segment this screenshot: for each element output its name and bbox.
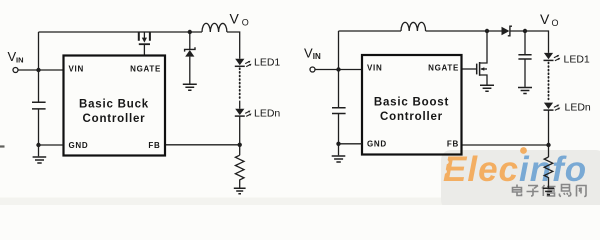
svg-text:Elecinfo: Elecinfo [443,150,587,189]
label Basic Buck Controller [79,99,149,126]
ground (below R2) [543,188,554,195]
svg-text:Controller: Controller [380,111,443,123]
svg-text:LED1: LED1 [564,53,590,65]
dotted wire LED string (left) [239,68,241,100]
node GND junction (right) [336,142,340,146]
label VIN (left) [8,49,24,65]
ground (below R1) [234,188,246,194]
node input junction (right) [336,67,340,71]
LEDn (left string) [235,109,252,117]
svg-text:VIN: VIN [69,65,84,74]
wire GND to input cap (left) [39,144,64,146]
wire top rail to inductor (right) [339,30,402,32]
wire LEDn to resistor (left) [239,101,241,156]
edge artifact mark [0,145,5,147]
svg-text:Basic Buck: Basic Buck [79,99,149,111]
svg-text:NGATE: NGATE [428,64,459,73]
capacitor C3 (input, right) [332,70,346,144]
wire MOSFET to switch node (left) [150,31,202,33]
svg-text:Basic Boost: Basic Boost [374,97,449,109]
wire input riser (right) [338,31,340,70]
wire GND to input cap (right) [339,143,363,145]
ground (below C2) [518,88,532,94]
wire input riser (left) [38,32,40,70]
logo text 电子信息网 [513,185,587,197]
svg-text:GND: GND [367,140,387,149]
node FB junction (left) [238,143,242,147]
svg-text:NGATE: NGATE [130,65,161,74]
capacitor C1 (input) [32,70,46,145]
node input junction (left) [36,68,40,72]
ground (input, right) [332,156,346,162]
node output cap junction (right) [523,29,527,33]
diode D2 (boost Schottky) [502,26,549,53]
logo card background [441,150,600,210]
node switch node (left) [188,30,192,34]
LED1 (left string) [235,59,252,67]
svg-text:IN: IN [16,56,24,65]
logo text Elecinfo [443,147,588,189]
resistor R1 (current sense) [235,155,244,187]
inductor L1 [202,23,227,32]
controller box U1 [64,56,166,156]
svg-text:Controller: Controller [83,113,146,125]
inductor L2 [401,22,426,31]
svg-text:V: V [304,46,313,61]
transistor Q1 (buck switch MOSFET) [139,32,150,56]
svg-text:O: O [242,17,249,27]
svg-text:FB: FB [447,140,459,149]
LED1 (right string) [544,53,561,61]
capacitor C2 (output) [518,31,531,87]
node FB junction (right) [546,143,550,147]
node switch node (right) [485,29,489,33]
node GND junction (left) [36,143,40,147]
svg-text:IN: IN [313,52,321,61]
controller box U2 [362,55,462,155]
wire GND junction to ground (right) [338,144,340,156]
transistor Q2 (boost switch MOSFET) [462,31,488,85]
wire top rail to MOSFET (left) [39,31,139,33]
wire inductor to output corner (left) [227,32,240,59]
svg-text:LED1: LED1 [254,57,280,69]
input terminal (right) [310,67,315,72]
svg-text:V: V [230,11,240,27]
resistor R2 (current sense) [544,157,553,188]
svg-text:VIN: VIN [367,64,382,73]
svg-text:LEDn: LEDn [565,102,591,114]
wire VIN terminal to box [18,69,63,71]
LEDn (right string) [544,103,561,111]
svg-text:LEDn: LEDn [254,108,280,120]
dotted wire LED string (right) [548,63,550,100]
wire FB (left) [165,144,240,146]
label VO (left) [230,11,249,28]
label VO (right) [540,11,559,28]
wire FB (right) [462,144,549,146]
wire inductor to switch node (right) [426,30,502,32]
svg-text:FB: FB [148,141,160,150]
label Basic Boost Controller [374,97,449,124]
input terminal (left) [13,68,18,73]
ground (below Q2) [480,85,494,91]
wire LEDn to resistor (right) [548,110,550,157]
ground (input, left) [33,157,47,163]
svg-text:O: O [552,18,559,28]
label VIN (right) [304,46,321,62]
ground (below D1) [183,84,197,90]
diode D1 (freewheeling Schottky) [185,32,195,84]
svg-text:GND: GND [69,141,89,150]
wire VIN terminal to box (right) [315,69,362,71]
svg-text:V: V [540,11,550,27]
wire GND junction to ground (left) [38,145,40,156]
